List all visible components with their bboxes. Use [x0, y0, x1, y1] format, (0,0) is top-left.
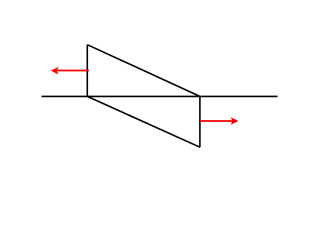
left shear force arrow	[51, 67, 89, 75]
sheared element right edge	[199, 96, 201, 147]
sheared element left edge	[86, 45, 88, 97]
sheared element top edge	[87, 45, 200, 97]
horizontal axis line	[42, 95, 278, 97]
right shear force arrow	[200, 117, 239, 125]
sheared element bottom edge	[87, 96, 200, 147]
